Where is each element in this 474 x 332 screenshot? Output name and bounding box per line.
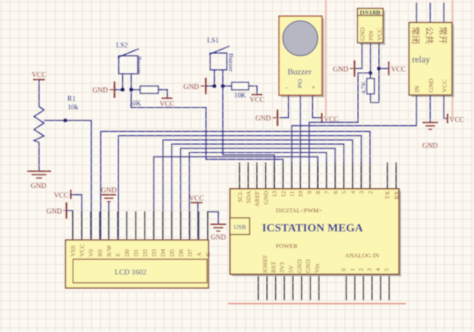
svg-text:D2: D2 bbox=[142, 249, 149, 257]
resistor 10K (LS2) bbox=[140, 86, 158, 93]
ICSTATION MEGA body bbox=[230, 189, 399, 274]
ground (earth) relay bbox=[422, 122, 438, 124]
svg-text:Out: Out bbox=[296, 79, 303, 89]
svg-text:GND: GND bbox=[255, 115, 271, 123]
svg-text:GND: GND bbox=[297, 259, 304, 273]
svg-text:11: 11 bbox=[289, 191, 296, 197]
wire DS data to MEGA pin 9 bbox=[309, 73, 370, 189]
wire buzzer Out to MEGA pin 10 bbox=[299, 95, 301, 189]
pin LS2.1 wire bbox=[122, 74, 124, 90]
svg-text:RX: RX bbox=[393, 190, 400, 199]
svg-text:RST: RST bbox=[271, 261, 278, 273]
svg-text:IN: IN bbox=[414, 85, 421, 92]
wire DS GND pin bbox=[355, 43, 362, 69]
svg-text:ICSTATION MEGA: ICSTATION MEGA bbox=[262, 222, 364, 234]
svg-text:TX: TX bbox=[385, 190, 392, 199]
pin LS2.2 wire bbox=[130, 74, 132, 90]
svg-text:1: 1 bbox=[349, 268, 356, 271]
svg-text:DIGITAL<PWM>: DIGITAL<PWM> bbox=[276, 207, 323, 214]
svg-text:K: K bbox=[205, 252, 212, 257]
svg-text:4.7K: 4.7K bbox=[360, 81, 367, 94]
USB tab bbox=[230, 218, 250, 235]
svg-text:D1: D1 bbox=[133, 249, 140, 257]
wire LS1 to 10K bbox=[223, 85, 232, 87]
svg-text:VCC: VCC bbox=[160, 100, 175, 108]
wire MEGA pin 5 to LCD D5 bbox=[172, 144, 344, 239]
pin LS1.2 wire bbox=[222, 70, 224, 86]
svg-text:GND: GND bbox=[46, 207, 62, 215]
svg-text:常闭: 常闭 bbox=[411, 27, 422, 45]
wire GND bar to LS1.1 bbox=[206, 85, 215, 87]
svg-text:10k: 10k bbox=[68, 104, 79, 112]
svg-text:relay: relay bbox=[412, 55, 430, 65]
svg-text:VSS: VSS bbox=[70, 245, 77, 257]
wire buzzer + to VCC bbox=[313, 95, 322, 118]
svg-text:5: 5 bbox=[341, 191, 348, 194]
svg-text:10K: 10K bbox=[234, 91, 246, 99]
svg-text:SDA: SDA bbox=[246, 190, 253, 203]
wire 4.7K to VCC net bbox=[371, 94, 380, 103]
wire MEGA pin 6 to LCD D6 bbox=[181, 148, 336, 239]
LCD pin stubs bbox=[72, 211, 74, 239]
buzzer module shadow bbox=[322, 18, 324, 97]
power port VCC (LS2 10K) bbox=[162, 97, 173, 99]
sensor DS18B20 shadow bbox=[383, 11, 385, 45]
svg-text:GND: GND bbox=[428, 78, 435, 92]
svg-text:VCC: VCC bbox=[32, 71, 47, 79]
wire VCC to R1 bbox=[38, 80, 40, 107]
svg-text:GND: GND bbox=[31, 182, 47, 190]
svg-text:VCC: VCC bbox=[449, 116, 464, 124]
junction on R1 wiper bbox=[63, 119, 67, 123]
svg-text:常开: 常开 bbox=[438, 27, 449, 45]
svg-text:2: 2 bbox=[358, 268, 365, 271]
svg-text:GND: GND bbox=[101, 186, 117, 194]
svg-text:+: + bbox=[312, 83, 316, 91]
svg-text:D4: D4 bbox=[160, 248, 167, 257]
svg-text:GND: GND bbox=[183, 83, 199, 91]
svg-text:0: 0 bbox=[341, 268, 348, 271]
svg-text:GND: GND bbox=[211, 234, 226, 242]
svg-text:GND: GND bbox=[92, 87, 108, 95]
svg-text:GND: GND bbox=[263, 190, 270, 204]
wire GND to LCD VSS bbox=[66, 211, 72, 240]
svg-text:10: 10 bbox=[298, 191, 305, 197]
wire MEGA pin 8 to LCD D3 bbox=[154, 157, 318, 240]
svg-text:VCC: VCC bbox=[391, 65, 406, 73]
pin LS1.1 wire bbox=[213, 70, 215, 86]
svg-text:LS2: LS2 bbox=[116, 41, 128, 49]
svg-text:3: 3 bbox=[359, 191, 366, 194]
svg-text:7: 7 bbox=[324, 191, 331, 194]
svg-text:D5: D5 bbox=[169, 249, 176, 257]
svg-text:IOREF: IOREF bbox=[262, 254, 269, 273]
wire LS1 signal to MEGA pin 13 bbox=[223, 86, 274, 189]
buzzer module disc bbox=[283, 21, 318, 56]
svg-text:13: 13 bbox=[272, 191, 279, 197]
svg-text:2: 2 bbox=[367, 191, 374, 194]
svg-text:E: E bbox=[115, 253, 122, 257]
wire DS VCC to port bbox=[379, 68, 388, 70]
wire VCC to LCD VCC pin bbox=[71, 195, 82, 240]
svg-text:GND: GND bbox=[305, 259, 312, 273]
power port VCC (relay) bbox=[447, 114, 449, 123]
svg-text:6: 6 bbox=[333, 191, 340, 194]
svg-text:5V: 5V bbox=[288, 265, 295, 273]
wire LS2 to 10K bbox=[131, 89, 140, 91]
wire MEGA pin 2 to LCD RS bbox=[101, 131, 370, 239]
red line under MEGA bottom pins bbox=[228, 303, 406, 305]
svg-text:Buzzer: Buzzer bbox=[287, 67, 311, 77]
svg-text:VCC: VCC bbox=[189, 195, 204, 203]
wire MEGA pin 4 to LCD D4 bbox=[163, 140, 353, 239]
wire DS data pin bbox=[370, 43, 372, 79]
wire R1 to ground bbox=[38, 142, 40, 170]
svg-text:9: 9 bbox=[306, 191, 313, 194]
MEGA top pin stubs bbox=[239, 163, 241, 189]
ground (earth) LCD K bbox=[210, 223, 226, 225]
svg-text:D3: D3 bbox=[151, 249, 158, 257]
wire 10K to VCC bbox=[158, 90, 167, 98]
svg-text:GND: GND bbox=[360, 27, 367, 41]
power port VCC (LS1 10K) bbox=[252, 94, 263, 96]
power port VCC (DS18B20) bbox=[388, 62, 390, 76]
svg-text:R/W: R/W bbox=[106, 245, 113, 257]
wire relay IN to MEGA pin 11 bbox=[292, 95, 417, 189]
wire MEGA pin 3 to LCD E bbox=[118, 136, 361, 240]
svg-text:POWER: POWER bbox=[276, 243, 299, 250]
ground (earth) below R1 bbox=[27, 170, 51, 172]
wire GND bar to LS2.1 bbox=[115, 89, 123, 91]
sensor DS18B20 body bbox=[358, 9, 384, 43]
svg-text:D0: D0 bbox=[124, 249, 131, 257]
wire relay COM up bbox=[429, 3, 431, 23]
svg-text:3: 3 bbox=[367, 268, 374, 271]
MEGA bottom pin stubs bbox=[257, 274, 259, 300]
svg-text:ANALOG IN: ANALOG IN bbox=[345, 252, 380, 259]
wire LS2 signal to MEGA pin 12 bbox=[131, 90, 283, 189]
svg-text:GND: GND bbox=[333, 65, 349, 73]
resistor R1 (pot) bbox=[34, 107, 44, 143]
svg-text:12: 12 bbox=[280, 191, 287, 197]
wire MEGA pin 7 to LCD D7 bbox=[189, 153, 326, 240]
wire relay VCC down bbox=[444, 95, 447, 119]
svg-text:USB: USB bbox=[234, 224, 246, 231]
relay module body bbox=[409, 23, 452, 96]
buzzer LS2 body bbox=[119, 56, 138, 74]
relay module shadow bbox=[452, 25, 454, 98]
VCC rail (red) to buzzer module bbox=[325, 0, 327, 116]
svg-text:PIN: PIN bbox=[368, 30, 375, 41]
ICSTATION MEGA shadow bbox=[399, 191, 401, 276]
power port VCC (buzzer module) bbox=[321, 113, 323, 123]
wire R1 wiper to LCD V0 bbox=[44, 120, 91, 239]
svg-text:DS18B: DS18B bbox=[360, 10, 382, 17]
resistor 4.7K bbox=[367, 79, 374, 94]
svg-text:GND: GND bbox=[422, 142, 437, 150]
svg-text:D7: D7 bbox=[187, 249, 194, 257]
svg-text:A: A bbox=[196, 252, 203, 257]
svg-text:VCC: VCC bbox=[250, 96, 265, 104]
svg-text:公共: 公共 bbox=[424, 27, 434, 45]
wire 10K to VCC (LS1) bbox=[249, 86, 257, 94]
svg-text:AREF: AREF bbox=[254, 190, 261, 207]
VCC rail (red) to relay bbox=[451, 0, 453, 118]
svg-text:RS: RS bbox=[97, 249, 104, 257]
svg-text:VCC: VCC bbox=[442, 79, 449, 92]
svg-text:5: 5 bbox=[384, 268, 391, 271]
svg-text:Vin: Vin bbox=[314, 263, 321, 273]
wire relay GND down bbox=[429, 95, 431, 122]
wire LCD K to ground bbox=[208, 212, 219, 240]
junction DS VCC bbox=[377, 67, 381, 71]
junction DS data bbox=[369, 71, 373, 75]
LCD 1602 body bbox=[66, 240, 209, 288]
svg-text:SCL: SCL bbox=[237, 191, 244, 203]
wire GND to LCD R/W bbox=[108, 202, 110, 240]
svg-text:Buzzer: Buzzer bbox=[135, 56, 142, 75]
wire relay NC up bbox=[416, 3, 418, 23]
svg-text:8: 8 bbox=[315, 191, 322, 194]
buzzer module body bbox=[279, 16, 322, 95]
svg-text:LCD 1602: LCD 1602 bbox=[115, 267, 147, 276]
svg-text:VCC: VCC bbox=[376, 28, 383, 41]
resistor 10K (LS1) bbox=[232, 82, 249, 89]
junction LS1.2 bbox=[221, 84, 225, 88]
svg-text:VCC: VCC bbox=[54, 191, 69, 199]
svg-text:R1: R1 bbox=[67, 95, 76, 103]
wire DS VCC pin bbox=[378, 43, 380, 103]
buzzer LS1 body bbox=[210, 53, 227, 70]
svg-text:LS1: LS1 bbox=[207, 37, 219, 45]
junction LS2.1 bbox=[121, 88, 125, 92]
junction LS2.2 bbox=[129, 88, 133, 92]
svg-text:VCC: VCC bbox=[79, 244, 86, 257]
svg-text:D6: D6 bbox=[178, 249, 185, 257]
junction LS1.1 bbox=[213, 84, 217, 88]
svg-text:3V3: 3V3 bbox=[279, 262, 286, 273]
svg-text:Buzzer: Buzzer bbox=[227, 53, 234, 72]
wire VCC to LCD A bbox=[197, 203, 199, 240]
wire relay NO up bbox=[443, 3, 445, 23]
svg-text:V0: V0 bbox=[88, 249, 95, 257]
wire buzzer - to GND bbox=[280, 95, 289, 118]
